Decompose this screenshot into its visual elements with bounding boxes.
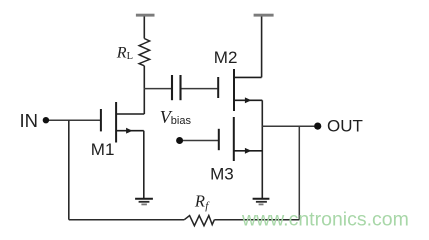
power rail VDD right [254,14,274,17]
wire: VDD left to RL top [143,17,145,39]
wire: RL bottom to M1 drain [143,66,145,114]
wire: M1 source down to ground [143,131,145,199]
wire: bottom feedback left [69,219,185,221]
wire: feedback right vertical [298,126,300,219]
ground under M2 M3 [253,199,270,205]
node OUT [314,123,321,130]
svg-text:M3: M3 [210,165,234,184]
svg-text:RL: RL [116,44,133,62]
wire: node to capacitor [144,88,172,90]
wire: OUT [262,125,314,127]
node IN [43,117,49,123]
wire: feedback left vertical [68,120,70,219]
wire: M2 drain up to VDD right [261,16,263,77]
transistor M3 [219,117,262,161]
wire: Vbias to M3 gate [183,140,218,142]
wire: bottom feedback right [214,219,299,221]
transistor M2 [218,69,262,111]
svg-text:OUT: OUT [327,116,363,135]
svg-text:M2: M2 [214,48,238,67]
node Vbias [176,137,183,144]
wire: capacitor to M2 gate [182,88,218,90]
wire: IN to M1 gate [49,119,100,121]
capacitor C1 right plate [179,75,181,100]
transistor M1 [101,102,144,143]
svg-text:Rf: Rf [194,191,210,212]
resistor Rf [184,216,214,226]
svg-text:IN: IN [20,110,39,131]
svg-text:www.cntronics.com: www.cntronics.com [241,208,409,230]
svg-text:M1: M1 [91,140,115,159]
power rail VDD left [136,14,155,17]
capacitor C1 left plate [171,75,173,100]
resistor RL [139,39,150,66]
wire: M2 source down to ground [261,100,263,198]
svg-text:Vbias: Vbias [160,107,192,127]
ground under M1 [135,199,153,205]
